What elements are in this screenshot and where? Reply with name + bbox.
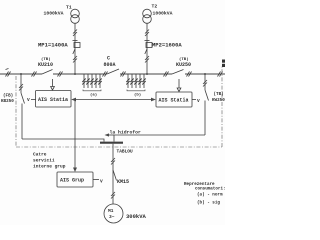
svg-text:T2: T2	[152, 4, 158, 10]
svg-text:KM15: KM15	[117, 179, 129, 185]
bus slash x59	[58, 72, 63, 77]
svg-text:M1: M1	[108, 208, 114, 214]
svg-text:MP2=1600A: MP2=1600A	[152, 42, 182, 49]
svg-text:TABLOU: TABLOU	[117, 149, 134, 155]
wire T2 to bus	[146, 23, 148, 74]
bus coupler C 800A	[104, 56, 120, 75]
contactor FB KB250	[1, 93, 25, 139]
isolator slashes T1 upper	[73, 30, 77, 37]
wire T1 to bus	[74, 23, 76, 74]
wire left drop from bus	[20, 74, 22, 93]
control link KU210 to AIS left	[51, 79, 55, 90]
bus slash x165	[164, 72, 169, 77]
AIS Grup box U3	[57, 172, 93, 187]
breaker MP2	[145, 41, 183, 55]
node T2-bus junction	[146, 73, 148, 75]
svg-text:V: V	[197, 98, 200, 104]
bus slash x219	[218, 72, 223, 77]
svg-text:(a): (a)	[90, 93, 97, 98]
transformer T1	[44, 5, 80, 24]
isolator slashes left drop	[19, 84, 23, 91]
svg-text:3~: 3~	[109, 214, 115, 220]
svg-text:la hidrofor: la hidrofor	[110, 130, 142, 136]
wire right return to TABLOU	[114, 135, 205, 142]
busbar TABLOU	[100, 143, 133, 155]
contactor aux contact V left	[27, 97, 36, 103]
svg-text:1000kVA: 1000kVA	[44, 11, 64, 17]
svg-text:300kVA: 300kVA	[126, 213, 147, 220]
node left feeder junction	[20, 73, 22, 75]
bus slash x188	[187, 72, 192, 77]
svg-text:AIS Statia: AIS Statia	[159, 98, 189, 104]
isolator slashes motor feeder upper	[111, 158, 115, 165]
svg-text:(b): (b)	[134, 93, 141, 98]
transformer T2	[143, 4, 173, 24]
svg-text:(TB): (TB)	[179, 57, 189, 62]
svg-text:AIS Statia: AIS Statia	[38, 97, 68, 103]
isolator slashes T2 lower	[145, 56, 149, 63]
svg-text:(b) - sig: (b) - sig	[197, 201, 220, 206]
svg-text:Catre: Catre	[33, 152, 47, 158]
svg-text:KU210: KU210	[38, 62, 53, 68]
isolator slashes right drop	[203, 80, 207, 87]
text catre servicii interne grup	[33, 152, 66, 170]
feeder group (b)	[126, 74, 145, 98]
wire left feed to TABLOU	[22, 139, 104, 142]
svg-text:V: V	[100, 179, 103, 185]
bus slash x5	[6, 69, 11, 77]
svg-text:1000kVA: 1000kVA	[153, 11, 173, 17]
wire TABLOU to motor	[112, 144, 114, 204]
svg-text:T1: T1	[66, 5, 72, 11]
svg-text:KB250: KB250	[1, 99, 14, 104]
isolator slashes T2 upper	[145, 30, 149, 37]
motor M1	[104, 204, 147, 223]
svg-text:MP1=1400A: MP1=1400A	[38, 42, 68, 49]
wire AIS interconnect with arrows	[71, 98, 156, 102]
AIS Statia box left U1	[36, 91, 72, 108]
main LV bus	[0, 73, 225, 75]
svg-text:KU250: KU250	[176, 62, 191, 68]
svg-text:(a) - norm: (a) - norm	[197, 193, 223, 198]
contactor aux contact V grup	[93, 179, 103, 185]
svg-text:AIS Grup: AIS Grup	[60, 178, 84, 184]
svg-text:KW250: KW250	[212, 98, 225, 103]
control link KU250 to AIS right	[177, 79, 181, 92]
svg-text:interne grup: interne grup	[33, 164, 66, 170]
AIS Statia box right U2	[156, 92, 192, 107]
contactor aux contact V right	[192, 98, 200, 104]
svg-text:C: C	[107, 56, 110, 62]
node T1-bus junction	[74, 73, 76, 75]
bus slash x33	[32, 72, 37, 77]
contactor KM15	[113, 170, 129, 185]
svg-text:(TB): (TB)	[41, 57, 51, 62]
bus slash x122	[121, 72, 126, 77]
wire right drop from bus	[204, 74, 206, 90]
node right feeder junction	[204, 73, 206, 75]
edge artifact mark right	[222, 60, 225, 68]
svg-text:V: V	[27, 97, 30, 103]
contactor TB KW250	[205, 90, 225, 135]
bus switch KU250	[172, 57, 191, 74]
svg-text:consumatori:: consumatori:	[195, 187, 225, 192]
wire AIS to AIS Grup	[73, 100, 77, 173]
isolator slashes T1 lower	[73, 56, 77, 63]
breaker MP1	[38, 41, 80, 55]
arrow la hidrofor	[105, 130, 142, 137]
isolator slashes motor feeder lower	[111, 192, 115, 199]
svg-text:800A: 800A	[104, 62, 116, 68]
legend reprezentare consumatori	[184, 182, 226, 206]
svg-text:(FB): (FB)	[3, 94, 13, 99]
feeder group (a)	[82, 74, 101, 98]
svg-text:servicii: servicii	[33, 158, 55, 164]
bus switch KU210	[38, 57, 53, 74]
dashed enclosure statia	[16, 66, 222, 147]
bus slash x104	[103, 72, 108, 77]
